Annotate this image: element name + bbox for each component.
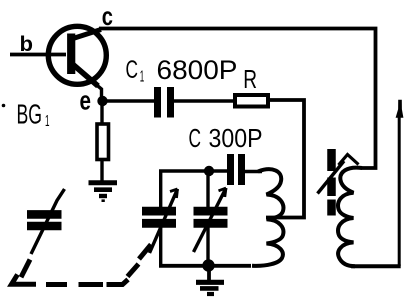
transistor BG1 circle <box>48 26 106 84</box>
svg-text:1: 1 <box>140 69 145 86</box>
variable capacitor CV2 (tank left) plates <box>142 207 176 216</box>
dashed gang linkage <box>12 245 152 285</box>
resistor R <box>235 95 268 107</box>
wire: tank middle vertical upper <box>206 171 209 208</box>
wire: emitter node down <box>100 101 103 123</box>
wire: C300P to coil L1 <box>245 170 262 174</box>
wire: emitter node to C1 <box>103 99 155 102</box>
wire: R output down to tank coil tap <box>266 100 304 218</box>
resistor (emitter bias) <box>97 124 109 160</box>
variable capacitor CV3 (tank middle) plates <box>194 207 228 216</box>
wire: tank bottom <box>159 264 251 268</box>
svg-text:c: c <box>102 1 113 31</box>
capacitor C1 plates <box>154 87 161 118</box>
inductor L1 (tank coil) <box>252 169 283 266</box>
transistor BG1 base bar <box>67 34 75 75</box>
adjustable core bars (output transformer) <box>327 149 336 171</box>
node: tank top junction dot <box>204 166 214 176</box>
wire: L2 bottom to antenna line <box>351 264 401 268</box>
wire: collector c to output transformer primary <box>99 29 376 169</box>
capacitor C 300P plates <box>227 154 234 185</box>
wire: tank left vertical lower <box>159 228 162 268</box>
antenna line <box>398 112 401 266</box>
svg-text:R: R <box>243 66 257 94</box>
svg-text:e: e <box>80 86 92 116</box>
svg-text:6800P: 6800P <box>157 55 238 85</box>
ground (emitter) <box>89 183 118 201</box>
wire: emitter to node <box>96 85 102 102</box>
svg-text:BG: BG <box>17 99 43 130</box>
svg-text:300P: 300P <box>209 125 263 153</box>
inductor L2 (output coil) <box>338 168 362 267</box>
wire: tank middle vertical lower <box>206 228 209 267</box>
ground (tank) <box>196 266 224 294</box>
node: tank bottom junction dot <box>202 259 214 271</box>
variable capacitor CV1 arrow <box>31 189 65 254</box>
wire: base lead <box>10 53 66 57</box>
wire: tank left vertical upper <box>159 170 162 209</box>
wire: resistor to ground <box>100 161 103 181</box>
transistor BG1 collector stroke <box>73 30 101 39</box>
variable capacitor CV3 arrow <box>194 188 227 252</box>
transistor BG1 emitter stroke <box>73 65 98 87</box>
wire: tank top <box>159 169 228 173</box>
svg-text:C: C <box>126 56 139 84</box>
variable capacitor CV2 arrow <box>150 189 178 253</box>
svg-text:b: b <box>20 33 34 56</box>
node: emitter junction dot <box>97 96 107 106</box>
svg-text:1: 1 <box>45 113 50 130</box>
wire: C1 to R <box>174 99 233 102</box>
speck <box>2 104 6 108</box>
antenna arrowhead <box>396 100 404 118</box>
svg-text:C: C <box>189 123 202 153</box>
adjustable core arrow <box>318 161 345 194</box>
variable capacitor CV1 (left, ganged) plates <box>27 210 62 219</box>
